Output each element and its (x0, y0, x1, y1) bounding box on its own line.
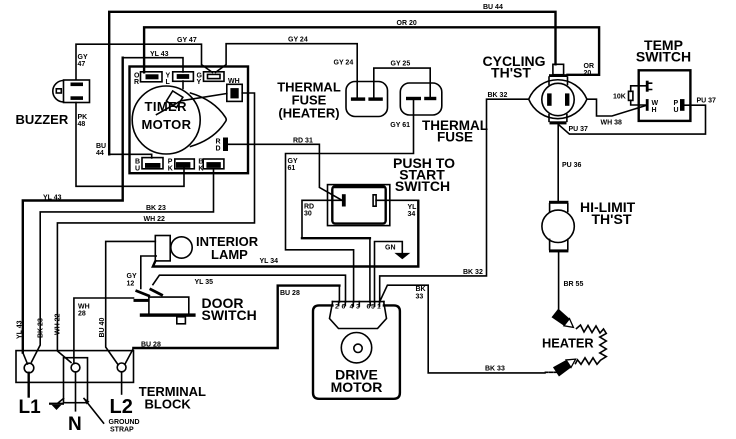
label YL 34 (switch side) (408, 204, 418, 218)
wire YL43 timer to terminal L1 (123, 58, 183, 72)
svg-text:6: 6 (367, 304, 371, 311)
svg-text:BR 55: BR 55 (564, 281, 584, 288)
svg-text:20: 20 (584, 70, 592, 77)
svg-text:L2: L2 (110, 396, 133, 418)
terminal L1 circle (24, 363, 34, 373)
timer terminal OR (134, 72, 162, 86)
svg-text:L: L (166, 79, 171, 86)
label GROUND STRAP (109, 419, 140, 434)
wire OR20 (144, 27, 599, 75)
svg-text:GN: GN (385, 245, 396, 252)
wire GY12 lamp to door switch (141, 256, 156, 289)
wire RD31 timer to push-start (228, 144, 342, 200)
drive motor pin row (332, 302, 384, 311)
svg-text:48: 48 (78, 121, 86, 128)
svg-text:L1: L1 (19, 397, 42, 418)
svg-text:PU 37: PU 37 (697, 98, 717, 105)
label OR 20 (cycling side) (584, 63, 595, 77)
label TIMER MOTOR (142, 99, 192, 132)
svg-text:6: 6 (342, 304, 346, 311)
svg-text:12: 12 (127, 281, 135, 288)
svg-text:K: K (168, 166, 173, 173)
svg-text:(HEATER): (HEATER) (278, 106, 339, 121)
svg-text:K: K (198, 166, 203, 173)
svg-text:GY: GY (78, 54, 88, 61)
svg-text:P: P (168, 159, 173, 166)
terminal block N slot (64, 358, 88, 403)
svg-text:YL 43: YL 43 (150, 51, 169, 58)
label INTERIOR LAMP (196, 234, 259, 262)
wire WH38 cycling to temp switch (587, 99, 646, 116)
svg-text:YL: YL (408, 204, 418, 211)
label PK 48 (78, 114, 88, 128)
label HI-LIMIT TH'ST (580, 199, 636, 227)
wire BU44 top run (109, 12, 555, 158)
terminal block box (16, 351, 134, 383)
wire WH22 timer to terminal N (57, 93, 254, 363)
svg-text:WH: WH (78, 304, 90, 311)
svg-text:BK: BK (416, 286, 426, 293)
timer YL stub (182, 81, 184, 89)
svg-text:R: R (134, 79, 139, 86)
label THERMAL FUSE 2 (422, 118, 488, 145)
svg-text:WH: WH (228, 78, 240, 85)
ground strap pointer (84, 398, 104, 423)
wire BK33 heater to motor (545, 371, 557, 373)
label DOOR SWITCH (202, 295, 257, 323)
thermal fuse 2 body (400, 83, 442, 115)
wire L1 stub (28, 373, 30, 397)
svg-text:U: U (674, 107, 679, 114)
label BU 44 (timer side) (96, 143, 106, 157)
svg-text:BU 44: BU 44 (483, 4, 503, 11)
svg-text:WH 38: WH 38 (601, 120, 623, 127)
wire WH28 door switch to terminal N (74, 298, 134, 363)
temp switch terminal top (646, 81, 652, 92)
terminal L2 circle (117, 363, 126, 372)
wire GY25 between fuses (374, 68, 430, 97)
svg-text:33: 33 (416, 294, 424, 301)
svg-text:BLOCK: BLOCK (145, 397, 192, 412)
timer box (130, 67, 249, 174)
door switch body (134, 297, 196, 324)
svg-text:PU 36: PU 36 (562, 162, 582, 169)
cycling thermostat (529, 64, 587, 124)
svg-text:RD 31: RD 31 (293, 137, 313, 144)
wire GN ground branch (375, 242, 403, 303)
svg-text:BU 40: BU 40 (99, 318, 106, 338)
svg-text:4: 4 (350, 304, 354, 311)
timer terminal WH (227, 78, 242, 101)
label GY 12 (127, 273, 137, 288)
timer terminal BU (135, 158, 163, 173)
svg-text:BK 32: BK 32 (463, 269, 483, 276)
svg-text:Y: Y (197, 79, 202, 86)
svg-text:D: D (216, 146, 221, 153)
svg-text:BU 28: BU 28 (141, 341, 161, 348)
svg-text:FUSE: FUSE (437, 130, 473, 145)
heater top plug (552, 309, 577, 332)
svg-text:BUZZER: BUZZER (16, 112, 69, 127)
svg-text:YL 34: YL 34 (260, 258, 279, 265)
svg-text:TH'ST: TH'ST (491, 65, 531, 81)
label RD 30 (304, 204, 314, 218)
wire PU37 cycling to temp switch (559, 105, 706, 134)
timer belt (191, 93, 227, 147)
wire YL35 door switch to motor (153, 275, 346, 302)
svg-text:R: R (216, 139, 221, 146)
wire RD30 push-start to motor pin (302, 200, 342, 238)
svg-text:BK 23: BK 23 (146, 205, 166, 212)
timer terminal GY (197, 72, 225, 86)
label GY 47 (buzzer side) (78, 54, 88, 68)
timer motor circle (132, 86, 200, 154)
label WH 28 (78, 304, 90, 318)
svg-text:44: 44 (96, 150, 104, 157)
svg-text:SWITCH: SWITCH (636, 49, 691, 65)
push-to-start switch (328, 185, 390, 226)
label TEMP SWITCH (636, 37, 691, 65)
svg-text:W: W (652, 100, 659, 107)
svg-text:WH 22: WH 22 (144, 216, 166, 223)
svg-text:OR: OR (584, 63, 595, 70)
svg-text:TIMER: TIMER (145, 99, 188, 114)
wire GY24 timer to thermal fuse heater (216, 44, 358, 98)
drive motor body (313, 305, 400, 398)
svg-text:GY: GY (288, 158, 298, 165)
terminal N circle (71, 363, 80, 372)
label THERMAL FUSE (HEATER) (277, 80, 341, 121)
svg-text:GROUND: GROUND (109, 419, 140, 426)
svg-text:GY 47: GY 47 (177, 37, 197, 44)
svg-text:MOTOR: MOTOR (331, 379, 383, 395)
svg-text:34: 34 (408, 211, 416, 218)
wire GY61 fuse2 to motor pin (286, 101, 414, 302)
wire BU28 terminal L2 to motor (125, 348, 133, 364)
drive motor pulley (341, 333, 371, 363)
svg-text:P: P (674, 100, 679, 107)
svg-text:U: U (135, 166, 140, 173)
temp switch terminal WH (646, 99, 659, 114)
label CYCLING TH'ST (483, 53, 546, 81)
svg-text:BK 33: BK 33 (485, 366, 505, 373)
label DRIVE MOTOR (331, 367, 383, 396)
svg-text:2: 2 (335, 304, 339, 311)
svg-text:3: 3 (356, 304, 360, 311)
wire N stub (75, 372, 77, 411)
svg-text:PK: PK (78, 114, 88, 121)
svg-text:1: 1 (377, 304, 381, 311)
svg-text:5: 5 (371, 304, 375, 311)
svg-text:47: 47 (78, 61, 86, 68)
wire BK23 timer to terminal L1 (32, 169, 214, 362)
timer terminal PK (168, 159, 195, 173)
svg-text:BU: BU (96, 143, 106, 150)
svg-text:GY 25: GY 25 (391, 61, 411, 68)
temp switch terminal PU (674, 99, 685, 114)
svg-text:BK 23: BK 23 (38, 318, 45, 338)
svg-text:YL 43: YL 43 (43, 195, 62, 202)
wire PU36 cycling to hi-limit (557, 124, 559, 200)
timer diamond (166, 91, 183, 108)
svg-text:GY 24: GY 24 (288, 37, 308, 44)
heater element zigzag (576, 325, 607, 364)
svg-text:MOTOR: MOTOR (142, 117, 192, 132)
timer terminal BK (198, 159, 224, 173)
svg-text:GY 24: GY 24 (334, 60, 354, 67)
door switch contact arm 2 (149, 288, 164, 297)
svg-text:YL 43: YL 43 (17, 320, 24, 339)
svg-text:H: H (652, 107, 657, 114)
svg-text:B: B (198, 159, 203, 166)
svg-text:STRAP: STRAP (110, 427, 134, 434)
svg-text:61: 61 (288, 165, 296, 172)
label BK 33 (motor side) (416, 286, 426, 301)
label TERMINAL BLOCK (139, 384, 206, 412)
svg-text:BU 28: BU 28 (280, 290, 300, 297)
timer cam line (157, 94, 227, 115)
wire BU40 lamp to terminal L2 (106, 241, 156, 364)
ground symbol at N (49, 399, 64, 411)
wire GY47 buzzer to timer (76, 44, 212, 79)
buzzer (53, 80, 90, 103)
svg-text:BK 32: BK 32 (488, 92, 508, 99)
svg-text:10K: 10K (613, 94, 626, 101)
door switch contact arm 1 (135, 289, 151, 297)
svg-text:WH 22: WH 22 (55, 314, 62, 336)
temp switch box (639, 70, 691, 121)
temp switch resistor 10K (613, 86, 646, 105)
svg-text:B: B (135, 159, 140, 166)
svg-text:LAMP: LAMP (211, 247, 248, 262)
svg-text:28: 28 (78, 311, 86, 318)
wire L2 stub (121, 372, 123, 394)
thermal fuse (heater) body (346, 82, 388, 117)
wire BR55 hi-limit to heater (558, 252, 560, 316)
svg-text:N: N (68, 414, 82, 435)
svg-text:SWITCH: SWITCH (202, 307, 257, 323)
svg-text:SWITCH: SWITCH (395, 178, 450, 194)
svg-text:YL 35: YL 35 (195, 279, 214, 286)
svg-text:30: 30 (304, 211, 312, 218)
wire PK48 buzzer to timer (76, 103, 184, 187)
timer terminal YL (166, 72, 194, 86)
svg-text:HEATER: HEATER (542, 336, 594, 351)
heater bottom plug (553, 354, 579, 376)
svg-text:GY: GY (127, 273, 137, 280)
svg-text:OR 20: OR 20 (397, 20, 417, 27)
drive motor connector plug (330, 302, 387, 329)
svg-text:PU 37: PU 37 (569, 126, 589, 133)
interior lamp (155, 236, 192, 261)
timer terminal RD (216, 138, 229, 153)
ground symbol GN (394, 253, 410, 259)
svg-text:GY 61: GY 61 (390, 122, 410, 129)
label PUSH TO START SWITCH (393, 155, 455, 194)
svg-text:TH'ST: TH'ST (592, 211, 632, 227)
label GY 61 (288, 158, 298, 172)
hi-limit thermostat (542, 201, 574, 253)
wire BK32 cycling to motor pin1 (380, 99, 529, 302)
wire YL34 lamp to push-start (376, 199, 418, 201)
svg-text:RD: RD (304, 204, 314, 211)
